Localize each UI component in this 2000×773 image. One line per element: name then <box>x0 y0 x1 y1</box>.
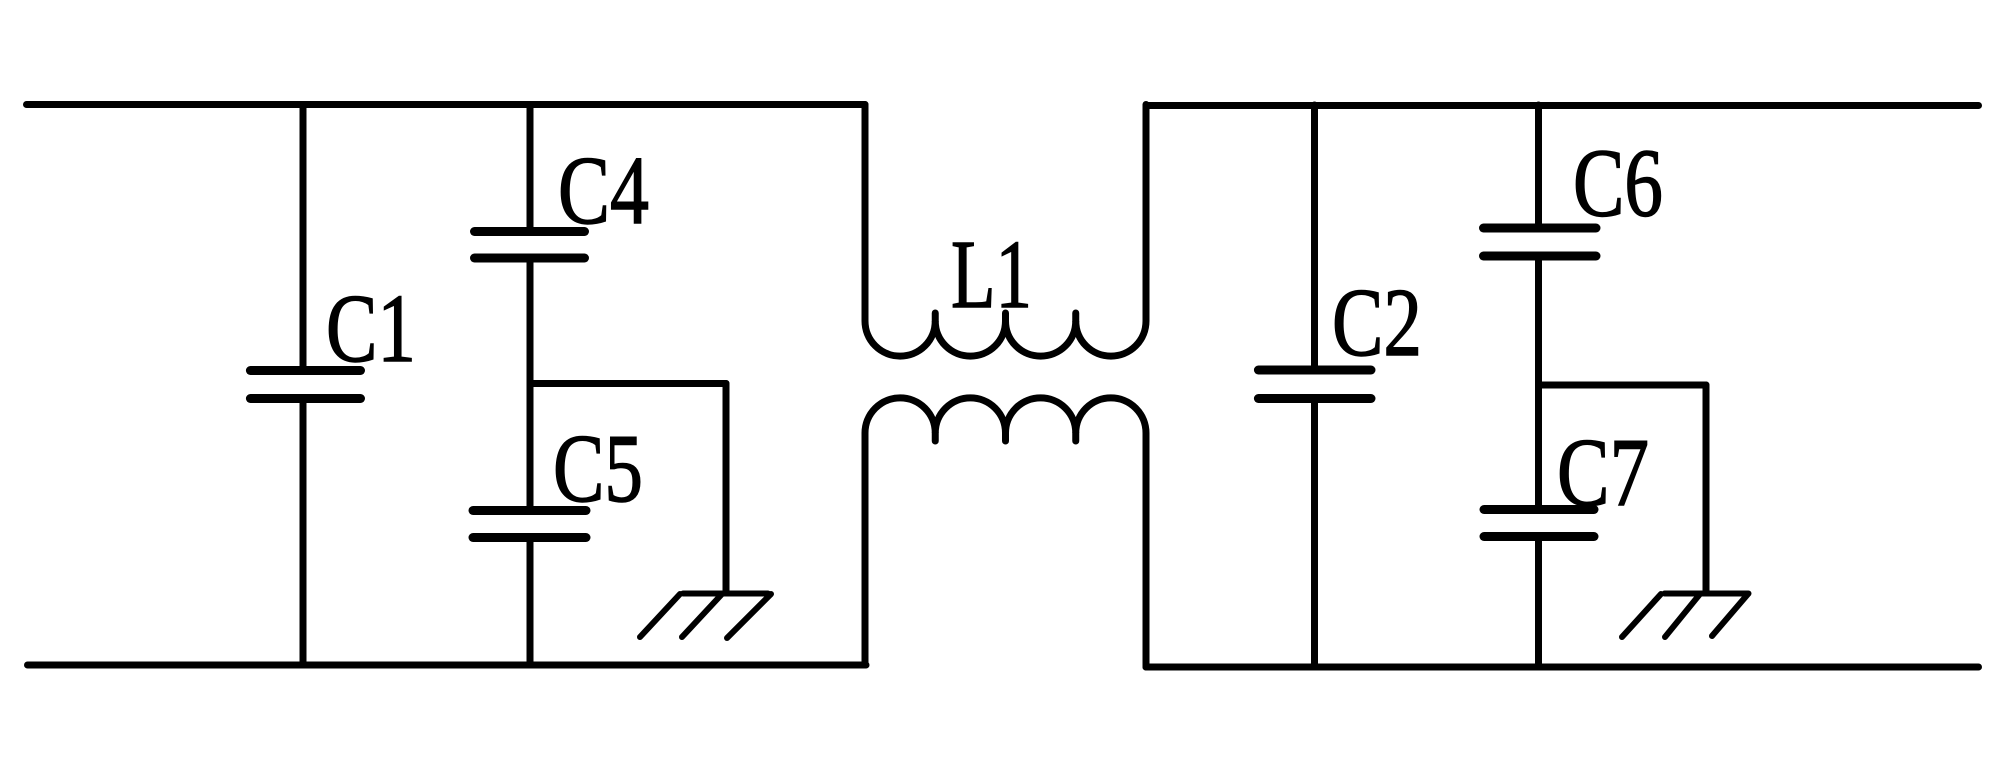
inductor L1 top winding <box>865 105 1146 357</box>
capacitor C6 <box>1484 105 1597 256</box>
capacitor C2 <box>1258 105 1371 666</box>
wire C6-C7 junction vertical <box>1535 256 1542 510</box>
wire branch C6/C7 junction to right ground drop <box>1539 382 1707 389</box>
wire C7 bottom lead <box>1535 537 1542 667</box>
wire bottom rail left segment <box>28 662 867 669</box>
wire C6 top lead <box>1535 105 1542 228</box>
C4 bottom plate <box>475 254 585 263</box>
C5 bottom plate <box>473 533 586 542</box>
C1 top plate <box>250 366 360 375</box>
svg-text:C5: C5 <box>553 415 643 523</box>
cusp stubs <box>932 313 939 321</box>
wire right ground drop vertical <box>1703 385 1710 592</box>
wire C1 bottom lead <box>300 399 307 666</box>
C6 top plate <box>1484 224 1597 233</box>
C2 bottom plate <box>1258 394 1371 403</box>
svg-text:L1: L1 <box>951 221 1032 329</box>
cusp stubs <box>932 433 939 441</box>
capacitor C1 <box>250 105 360 666</box>
svg-text:C7: C7 <box>1557 419 1649 527</box>
wire bottom rail right segment <box>1146 664 1979 671</box>
ground right <box>1622 594 1749 638</box>
svg-text:C2: C2 <box>1332 269 1422 377</box>
C7 top plate <box>1484 505 1594 514</box>
wire C2 bottom lead <box>1311 399 1318 667</box>
capacitor C4 <box>475 105 585 259</box>
wire C2 top lead <box>1311 105 1318 370</box>
wire top rail right segment <box>1146 102 1979 109</box>
C5 top plate <box>473 506 586 515</box>
capacitor C7 <box>1484 510 1594 667</box>
C1 bottom plate <box>250 394 360 403</box>
wire left ground drop vertical <box>723 384 730 593</box>
C4 top plate <box>475 227 585 236</box>
svg-text:C4: C4 <box>558 137 649 245</box>
wire top rail left segment <box>27 101 866 108</box>
ground left <box>640 594 771 639</box>
wire C4 top lead <box>527 105 534 232</box>
wire branch C4/C5 junction to left ground drop <box>530 380 726 387</box>
inductor L1 bottom winding <box>865 398 1146 667</box>
wire C5 bottom lead <box>527 538 534 666</box>
wire C4-C5 junction vertical <box>527 258 534 511</box>
C6 bottom plate <box>1484 252 1597 261</box>
wire C1 top lead <box>300 105 307 371</box>
C7 bottom plate <box>1484 532 1594 541</box>
C2 top plate <box>1258 366 1371 375</box>
svg-text:C1: C1 <box>326 275 416 383</box>
svg-text:C6: C6 <box>1573 130 1663 238</box>
capacitor C5 <box>473 511 586 666</box>
